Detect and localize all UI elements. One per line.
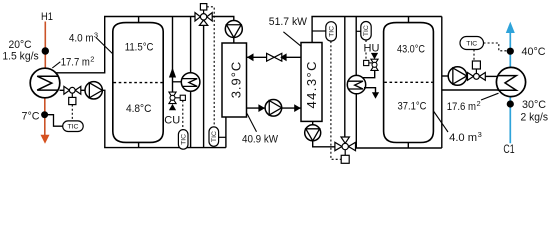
svg-text:2: 2 — [477, 99, 481, 108]
pump P4 (compressor) — [265, 100, 282, 117]
instrument TIC4 (top) — [356, 22, 371, 41]
wire E2 top leg — [311, 17, 313, 43]
signal V2 actuator to TIC1 — [182, 100, 184, 129]
label 1.5 kg/s — [2, 50, 39, 62]
wire tank T2 bottom stub — [407, 143, 409, 149]
arrow flow up into valve V2 — [169, 104, 176, 110]
instrument TIC5 — [460, 37, 484, 50]
svg-text:11.5°C: 11.5°C — [125, 42, 154, 54]
svg-text:20°C: 20°C — [9, 39, 32, 51]
wire H1 outlet pipe (orange) — [44, 98, 46, 137]
label 30°C — [522, 99, 546, 111]
label HU — [364, 43, 380, 55]
arrow C1 outlet flow (blue) — [506, 22, 515, 33]
wire bottom header (left) — [104, 147, 226, 149]
signal V3 actuator to TIC2 — [207, 7, 214, 127]
label 17.7 m2 with pointer — [52, 55, 94, 69]
wire HX1 secondary right port — [60, 89, 65, 91]
wire C1 pipe (blue) — [509, 32, 511, 144]
wire riser to pump P5 — [442, 75, 448, 77]
wire valve V5 top leg — [344, 17, 346, 138]
valve V7 — [468, 61, 486, 80]
svg-text:3: 3 — [478, 130, 482, 139]
valve V2 (CU feed) — [169, 92, 186, 104]
svg-text:C1: C1 — [503, 144, 514, 156]
wire pump P2 to evaporator E1 — [233, 38, 235, 44]
node H1 label — [41, 11, 53, 23]
wire HX3 right port to tank T2 — [364, 88, 379, 99]
heat exchanger HX3 (HU) — [347, 75, 365, 93]
pump P2 — [225, 21, 242, 38]
arrow flow right into pump P4 — [258, 104, 265, 112]
svg-text:HU: HU — [364, 43, 380, 55]
wire tank T1 top stub — [138, 17, 140, 23]
instrument TIC2 (bottom) — [209, 127, 226, 146]
wire valve V1 to pump P1 — [81, 89, 85, 91]
arrow flow up (CU branch) — [169, 68, 176, 78]
valve V5 (3-way, discharge) — [335, 137, 356, 163]
heat exchanger HX4 (17.6 m2) — [496, 67, 525, 96]
node sensor tap 40°C — [507, 48, 514, 55]
heat exchanger HX1 (17.7 m2) — [30, 68, 60, 98]
pump P3 — [305, 125, 321, 141]
arrow flow left into E1 — [247, 53, 254, 61]
svg-text:17.7 m: 17.7 m — [61, 57, 90, 69]
wire header to pump P2 — [212, 17, 234, 21]
wire HX3 bottom leg — [355, 94, 357, 148]
svg-text:7°C: 7°C — [22, 110, 40, 122]
instrument TIC1 (bottom) — [178, 130, 188, 150]
arrow flow right into condenser — [294, 104, 301, 112]
signal TIC4 to valve V6 actuator — [365, 40, 367, 60]
wire bottom header (right) — [356, 147, 442, 149]
label 7°C — [22, 110, 40, 122]
label 17.6 m2 with pointer — [447, 93, 499, 113]
signal TIC5 to sensor node 40°C — [484, 43, 507, 51]
wire HX3 riser — [355, 17, 357, 77]
pump P1 — [85, 82, 102, 99]
svg-text:1.5 kg/s: 1.5 kg/s — [2, 50, 39, 62]
wire right manifold riser — [441, 17, 443, 149]
instrument TIC (left loop) — [63, 121, 83, 132]
label 4.0 m3 (tank T2) with pointer — [434, 112, 482, 145]
label 2 kg/s — [521, 112, 549, 124]
svg-text:43.0°C: 43.0°C — [397, 43, 425, 55]
wire upper tank feed pipe — [363, 70, 375, 77]
svg-text:TIC: TIC — [211, 131, 218, 142]
node sensor tap 7°C — [41, 111, 48, 118]
wire E2 bottom stub — [312, 121, 314, 124]
wire valve V3 bottom leg — [203, 25, 205, 147]
svg-text:H1: H1 — [41, 11, 53, 23]
label 20°C — [9, 39, 32, 51]
svg-text:3: 3 — [94, 30, 98, 39]
wire E1 bottom leg to header — [225, 117, 227, 148]
svg-text:2: 2 — [90, 55, 94, 64]
valve V3 (3-way, charge) — [195, 4, 212, 26]
label 40°C — [522, 46, 546, 58]
heat exchanger E2 condenser 44.3°C — [301, 43, 322, 122]
svg-text:TIC: TIC — [181, 134, 188, 145]
wire top header (right) — [311, 16, 441, 18]
tank T2 (4.0 m3) — [384, 23, 434, 143]
wire refrigerant lower pipe — [247, 107, 302, 109]
signal TIC5 to valve V7 actuator — [473, 50, 475, 62]
pump P5 — [448, 67, 467, 86]
svg-text:TIC: TIC — [329, 26, 336, 37]
label 40.9 kW with pointer — [242, 114, 279, 146]
wire tank T1 bottom stub — [138, 142, 140, 147]
label 4.0 m3 (tank T1) with pointer — [69, 30, 113, 54]
svg-text:4.0 m: 4.0 m — [69, 32, 94, 44]
node sensor tap 20°C — [42, 47, 49, 54]
svg-text:40°C: 40°C — [522, 46, 546, 58]
svg-text:40.9 kW: 40.9 kW — [242, 134, 279, 146]
wire refrigerant upper pipe — [247, 56, 302, 58]
wire H1 inlet pipe (orange) — [44, 22, 46, 69]
svg-text:2 kg/s: 2 kg/s — [521, 112, 549, 124]
node C1 label (blue) — [503, 144, 514, 156]
svg-text:44.3°C: 44.3°C — [304, 62, 319, 109]
wire pump P1 outlet to bottom header — [102, 90, 104, 147]
svg-text:4.8°C: 4.8°C — [126, 103, 152, 115]
wire sensor tap to TIC — [45, 115, 63, 127]
svg-text:37.1°C: 37.1°C — [398, 101, 427, 113]
svg-text:51.7 kW: 51.7 kW — [269, 16, 308, 28]
svg-text:TIC: TIC — [68, 124, 79, 131]
wire tank T2 top stub — [408, 17, 410, 23]
heat exchanger E1 evaporator 3.9°C — [222, 43, 247, 117]
svg-text:4.0 m: 4.0 m — [449, 132, 477, 144]
wire top header (left) — [104, 16, 195, 18]
svg-text:CU: CU — [164, 115, 180, 127]
wire valve V7 to HX4 — [485, 75, 498, 77]
valve V6 (HU feed) — [364, 59, 379, 70]
wire CU branch riser — [172, 17, 174, 93]
wire HX4 lower return pipe — [442, 89, 499, 91]
label 51.7 kW with pointer — [269, 16, 308, 46]
valve V4 (expansion) — [267, 53, 282, 61]
wire HX1 secondary top port — [56, 17, 105, 73]
signal TIC3 to valve V5 actuator — [331, 41, 341, 159]
arrow H1 outlet flow — [41, 135, 50, 144]
valve V1 — [64, 86, 81, 104]
signal V1 actuator to TIC — [71, 105, 73, 121]
heat exchanger HX2 (CU) — [173, 17, 200, 148]
node sensor tap 30°C — [507, 100, 514, 107]
label CU — [164, 115, 180, 127]
svg-text:TIC: TIC — [363, 25, 370, 36]
wire pump P3 to valve V5 — [313, 141, 335, 147]
svg-text:30°C: 30°C — [522, 99, 546, 111]
svg-text:17.6 m: 17.6 m — [447, 101, 476, 113]
arrow flow down from HU — [371, 53, 378, 59]
tank T1 (4.0 m3) — [113, 23, 163, 143]
svg-text:3.9°C: 3.9°C — [228, 62, 243, 99]
instrument TIC3 (top) — [312, 22, 336, 41]
svg-text:TIC: TIC — [466, 41, 477, 48]
arrow flow left into valve V4 — [280, 53, 286, 61]
